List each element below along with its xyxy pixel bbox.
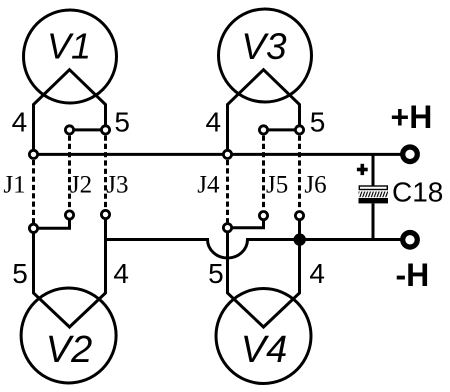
node J1 top <box>29 150 37 158</box>
wire V1 pin4 + filament V1 + pin5 <box>34 70 106 155</box>
svg-text:V3: V3 <box>241 26 287 67</box>
wire top bus +H <box>34 153 404 156</box>
svg-text:V1: V1 <box>47 25 91 66</box>
wire bottom bus -H with hop <box>106 240 404 259</box>
node J2 top <box>65 126 73 134</box>
svg-text:V2: V2 <box>46 329 92 371</box>
node J3 top <box>101 126 109 134</box>
svg-text:J4: J4 <box>197 172 220 199</box>
node J1 bottom <box>29 224 37 232</box>
wire capacitor bottom lead <box>372 203 375 239</box>
node J5 top <box>259 126 267 134</box>
svg-text:4: 4 <box>12 106 28 137</box>
node J4 bottom <box>223 224 231 232</box>
svg-text:4: 4 <box>113 258 129 289</box>
svg-text:-H: -H <box>396 257 430 293</box>
capacitor C18 hatched plate <box>359 192 388 198</box>
tube V3 envelope <box>219 9 312 102</box>
jumper J4 dashed line <box>226 160 229 223</box>
node J3 bottom <box>101 210 109 218</box>
wire V2 pin5 + filament V2 + pin4 <box>34 215 106 328</box>
svg-text:5: 5 <box>208 258 224 289</box>
jumper J2 dashed line <box>68 136 71 210</box>
terminal +H ring <box>403 147 418 162</box>
svg-text:J2: J2 <box>70 172 92 199</box>
svg-text:4: 4 <box>309 258 325 289</box>
terminal -H ring <box>403 233 418 248</box>
node J5 bottom <box>259 212 267 220</box>
svg-text:C18: C18 <box>392 177 443 208</box>
svg-text:5: 5 <box>114 106 130 137</box>
capacitor C18 bottom plate <box>359 198 389 203</box>
tube V4 envelope <box>216 289 311 384</box>
wire V4 pin5 + filament V4 + pin4 <box>228 216 300 327</box>
svg-text:5: 5 <box>310 106 326 137</box>
wire jumper link J4-J5 bottom <box>228 216 264 228</box>
jumper J5 dashed line <box>262 136 265 211</box>
svg-text:5: 5 <box>12 258 28 289</box>
svg-text:V4: V4 <box>241 329 287 371</box>
junction dot <box>294 233 306 245</box>
node J4 top <box>223 150 231 158</box>
svg-text:J3: J3 <box>106 172 128 199</box>
wire jumper link J2-J3 top <box>70 128 106 131</box>
wire jumper link J1-J2 bottom <box>34 215 70 228</box>
svg-text:J6: J6 <box>304 172 326 199</box>
node J6 bottom <box>295 212 303 220</box>
svg-text:J5: J5 <box>266 172 288 199</box>
wire capacitor top lead <box>372 154 375 186</box>
svg-text:+H: +H <box>391 99 433 135</box>
wire jumper link J5-J6 top <box>264 128 300 131</box>
capacitor C18 top plate <box>359 186 387 190</box>
node J6 top <box>295 126 303 134</box>
jumper J1 dashed line <box>32 160 35 223</box>
node J2 bottom <box>65 211 73 219</box>
jumper J3 dashed line <box>104 136 107 210</box>
jumper J6 dashed line <box>298 136 301 211</box>
tube V1 envelope <box>24 10 117 103</box>
tube V2 envelope <box>21 288 116 383</box>
wire V3 pin4 + filament V3 + pin5 <box>228 70 300 155</box>
svg-text:J1: J1 <box>3 172 25 199</box>
capacitor C18 polarity plus <box>357 164 368 175</box>
svg-text:4: 4 <box>206 106 222 137</box>
